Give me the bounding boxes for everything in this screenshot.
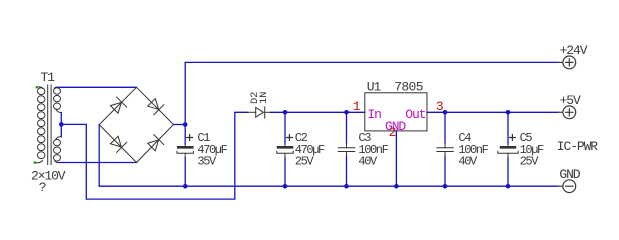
- transformer T1 secondary winding lower: [54, 137, 62, 163]
- wire D2 to regulator input: [271, 111, 365, 113]
- transformer T1 core: [48, 85, 51, 165]
- bridge diode bottom-right: [146, 135, 163, 152]
- wire secondary top to bridge: [58, 86, 136, 88]
- svg-text:40V: 40V: [458, 155, 478, 169]
- node C1 ground junction: [183, 184, 188, 189]
- wire secondary bottom to bridge: [58, 162, 136, 164]
- node C3 ground junction: [344, 184, 349, 189]
- node bridge plus junction: [183, 122, 188, 127]
- bridge diode top-right: [146, 97, 163, 114]
- bridge diode top-left: [109, 97, 126, 114]
- svg-text:7805: 7805: [394, 80, 422, 95]
- svg-text:IC-PWR: IC-PWR: [557, 139, 599, 154]
- svg-text:25V: 25V: [520, 155, 540, 169]
- svg-text:2: 2: [389, 125, 396, 140]
- node center tap junction: [59, 122, 64, 127]
- capacitor C5: [498, 112, 518, 157]
- capacitor C4: [437, 112, 453, 156]
- svg-text:GND: GND: [559, 167, 580, 182]
- wire +24V top rail: [185, 61, 558, 63]
- node C2 ground junction: [283, 184, 288, 189]
- capacitor C2: [277, 112, 293, 157]
- svg-text:1N: 1N: [258, 92, 270, 104]
- wire U1 ground pin: [395, 131, 397, 186]
- wire C2 bottom: [284, 158, 286, 187]
- svg-text:40V: 40V: [358, 155, 378, 169]
- bridge diode bottom-left: [109, 135, 126, 152]
- transformer T1 primary winding: [35, 87, 45, 163]
- svg-text:2×10V: 2×10V: [31, 168, 66, 183]
- svg-text:In: In: [367, 107, 381, 122]
- wire bridge right corner to junction: [174, 124, 186, 126]
- node U1 ground junction: [394, 184, 399, 189]
- wire ground rail: [99, 185, 558, 187]
- wire center tap to D2 via bottom detour: [61, 112, 247, 199]
- node C5 ground junction: [506, 184, 511, 189]
- wire C5 bottom: [507, 158, 509, 187]
- wire C4 bottom: [444, 156, 446, 186]
- svg-text:U1: U1: [367, 80, 382, 95]
- transformer T1 secondary winding upper: [54, 87, 62, 113]
- svg-text:35V: 35V: [197, 155, 217, 169]
- capacitor C3: [338, 112, 354, 156]
- node C4 ground junction: [443, 184, 448, 189]
- node C5 top junction: [506, 110, 511, 115]
- svg-text:T1: T1: [41, 70, 56, 85]
- svg-text:+24V: +24V: [560, 43, 588, 58]
- node C3 top junction: [344, 110, 349, 115]
- op-amp U1 regulator box: [365, 93, 427, 131]
- wire C1 bottom: [184, 158, 186, 187]
- node C4 top junction: [443, 110, 448, 115]
- transformer T1 primary pin dot top: [36, 86, 39, 89]
- svg-text:?: ?: [39, 180, 46, 195]
- capacitor C1: [177, 135, 193, 158]
- wire bridge left corner down to ground rail: [98, 125, 100, 187]
- wire C3 bottom: [346, 156, 348, 186]
- svg-text:Out: Out: [405, 107, 425, 122]
- wire center tap vertical: [60, 113, 62, 137]
- svg-text:25V: 25V: [295, 155, 315, 169]
- wire +24V riser and C1 top: [184, 62, 186, 144]
- terminal +24V: [558, 56, 576, 69]
- terminal GND: [558, 180, 576, 193]
- svg-text:+5V: +5V: [560, 93, 581, 108]
- wire regulator output to +5V: [427, 111, 558, 113]
- transformer T1 primary pin dot bottom: [34, 161, 37, 164]
- node C2 top junction: [283, 110, 288, 115]
- diode D2: [248, 107, 271, 118]
- bridge rectifier diamond: [99, 87, 173, 162]
- terminal +5V: [558, 106, 576, 119]
